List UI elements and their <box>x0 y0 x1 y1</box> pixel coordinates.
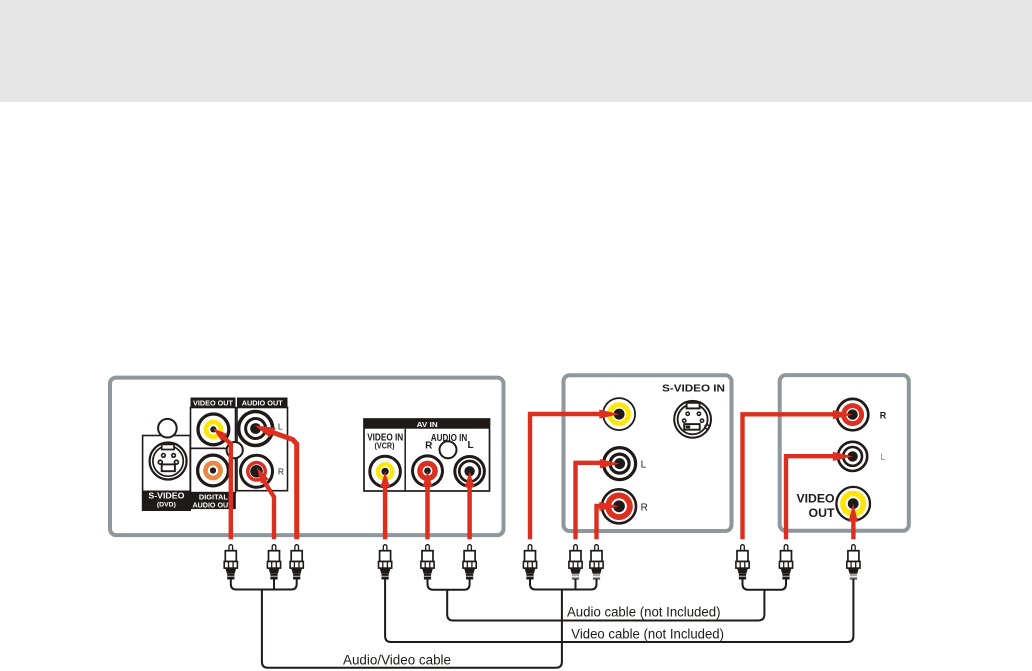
right device panel <box>780 375 909 531</box>
yellow VIDEO OUT RCA jack <box>198 414 229 445</box>
middle R jack (red) <box>602 489 636 523</box>
svg-text:DIGITAL: DIGITAL <box>199 495 229 502</box>
plug 1 (left video out) <box>224 545 237 580</box>
svg-text:(VCR): (VCR) <box>375 442 395 451</box>
right R jack (red) <box>837 399 868 430</box>
svg-text:Video cable (not Included): Video cable (not Included) <box>571 627 724 642</box>
AV IN yellow video in jack <box>370 456 401 487</box>
svg-text:S-VIDEO IN: S-VIDEO IN <box>662 383 725 395</box>
cable from left audio out L <box>255 425 297 539</box>
cable into middle L (arrow right) <box>576 459 620 539</box>
S-Video IN connector icon <box>674 401 711 438</box>
cable from left audio out R <box>257 468 274 540</box>
svg-text:Audio cable (not Included): Audio cable (not Included) <box>567 604 721 619</box>
plug 3 (left audio L) <box>290 545 303 580</box>
svg-text:AUDIO OUT: AUDIO OUT <box>193 502 234 509</box>
middle device panel <box>564 375 732 531</box>
svg-text:R: R <box>641 502 648 513</box>
plug 2 (left audio R) <box>267 545 280 580</box>
plug 8 (middle L) <box>569 545 582 580</box>
AV IN block <box>364 419 490 491</box>
S-VIDEO (DVD) jack box <box>143 436 191 511</box>
cable into AV IN video (arrow up) <box>380 472 390 540</box>
plug 4 (AV IN video) <box>379 545 392 580</box>
right L jack (white) <box>838 442 867 471</box>
svg-text:L: L <box>880 452 885 463</box>
cable into AV IN audio L (arrow up) <box>465 471 475 539</box>
middle yellow video in jack <box>603 398 635 430</box>
plug 7 (middle yellow) <box>523 545 536 580</box>
audio out R jack (red) <box>241 455 273 487</box>
middle L jack (white) <box>604 448 636 480</box>
svg-text:AV IN: AV IN <box>417 420 438 429</box>
audio cable bracket under AV IN audio plugs <box>428 580 470 590</box>
plug 5 (AV IN audio R) <box>421 545 434 580</box>
A/V cable run <box>262 590 562 668</box>
left device panel (DVD rear) <box>110 378 504 535</box>
svg-text:OUT: OUT <box>809 508 835 520</box>
svg-text:VIDEO: VIDEO <box>797 493 835 505</box>
screw hole above S-Video box <box>158 419 177 438</box>
svg-text:AUDIO OUT: AUDIO OUT <box>242 398 283 407</box>
cable into AV IN audio R (arrow up) <box>423 471 433 539</box>
svg-text:R: R <box>278 466 284 476</box>
audio cable run <box>447 590 764 621</box>
cable into right L (arrow right) <box>786 452 853 539</box>
svg-text:L: L <box>641 460 647 471</box>
svg-text:S-VIDEO: S-VIDEO <box>148 491 184 500</box>
right VIDEO OUT yellow jack <box>836 487 870 521</box>
plug 10 (right R) <box>736 545 749 580</box>
audio cable bracket under right R/L plugs <box>743 580 787 590</box>
cable into right video out (arrow up) <box>848 504 858 540</box>
cable into right R (arrow right) <box>743 410 853 539</box>
video cable run <box>385 580 853 643</box>
orange DIGITAL AUDIO OUT RCA jack <box>198 455 229 486</box>
plug 12 (right video out) <box>847 545 860 580</box>
A/V cable bracket under left panel plugs <box>231 580 297 590</box>
svg-text:R: R <box>425 441 433 452</box>
AV IN L jack (white) <box>455 457 485 487</box>
cable from left yellow video out <box>213 428 231 539</box>
plug 9 (middle R) <box>590 545 603 580</box>
svg-text:L: L <box>278 422 283 432</box>
svg-text:L: L <box>468 440 474 451</box>
AUDIO OUT column <box>237 398 288 491</box>
top gray header bar <box>0 0 1032 102</box>
cable into middle yellow (arrow right) <box>530 410 619 540</box>
small screw circle between columns <box>227 442 243 458</box>
cable into middle R (arrow right) <box>597 502 620 540</box>
A/V cable bracket under middle panel plugs <box>530 580 597 590</box>
svg-text:VIDEO OUT: VIDEO OUT <box>193 398 233 407</box>
svg-text:Audio/Video cable: Audio/Video cable <box>343 653 451 668</box>
plug 11 (right L) <box>779 545 792 580</box>
audio out L jack (white) <box>239 412 273 446</box>
VIDEO OUT column <box>191 398 236 510</box>
plug 6 (AV IN audio L) <box>463 545 476 580</box>
svg-text:(DVD): (DVD) <box>157 502 176 509</box>
AV IN R jack (red) <box>413 456 443 486</box>
S-Video (DVD) connector icon <box>150 443 187 480</box>
svg-text:R: R <box>880 410 887 420</box>
